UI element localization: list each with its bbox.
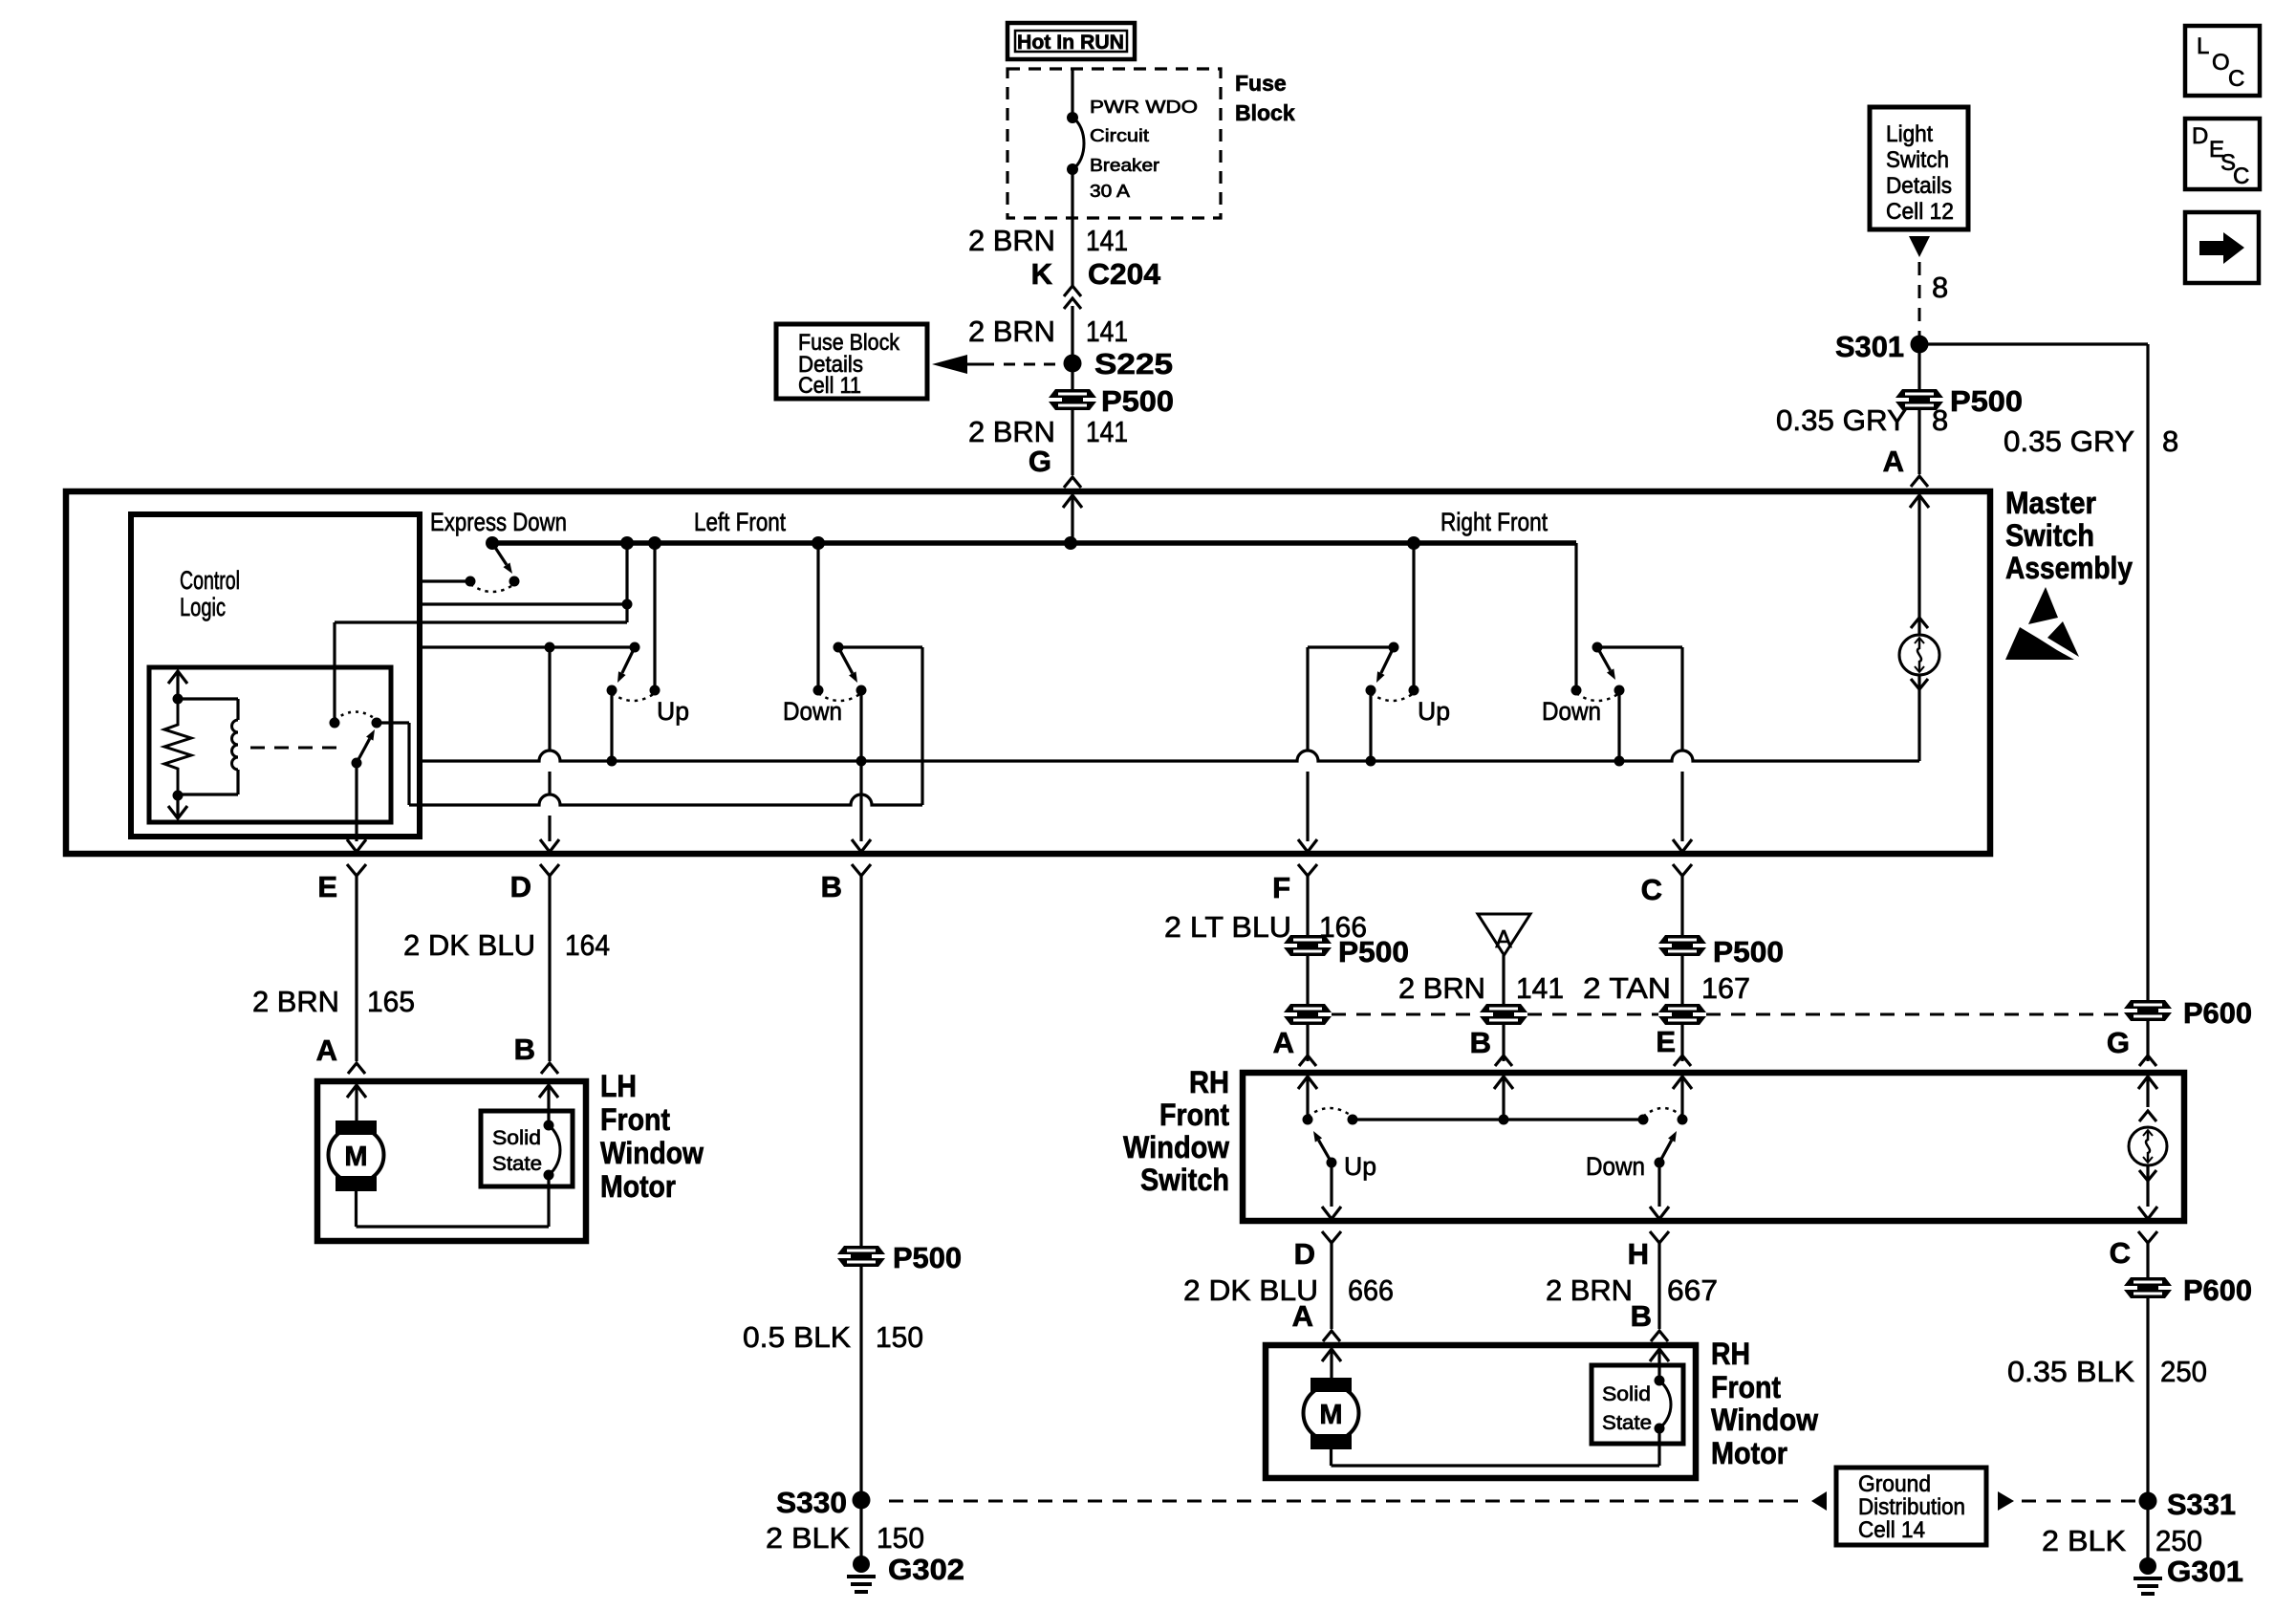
- wire S301 to P500 (column A): [1917, 344, 1920, 389]
- wire C to RH switch pin E: [1680, 876, 1683, 1061]
- RH motor pin A entry arrow: [1330, 1349, 1332, 1378]
- svg-text:Ground: Ground: [1858, 1471, 1931, 1497]
- RH switch common bar: [1353, 1118, 1643, 1120]
- svg-text:Up: Up: [657, 697, 689, 726]
- relay bottom rail wire: [178, 793, 238, 795]
- svg-text:L: L: [2197, 33, 2209, 59]
- RH lamp connector chevron lower: [2139, 1170, 2156, 1181]
- resistor lower node dot: [173, 791, 184, 801]
- svg-text:667: 667: [1667, 1273, 1718, 1307]
- svg-text:0.35 GRY: 0.35 GRY: [2004, 424, 2134, 458]
- svg-text:A: A: [1883, 445, 1904, 478]
- svg-text:Front: Front: [1711, 1370, 1781, 1404]
- RF down switch fixed contact: [1571, 685, 1582, 696]
- wire F drop below line A hop: [1306, 772, 1309, 841]
- ground G301: [2139, 1557, 2156, 1575]
- svg-text:Up: Up: [1418, 697, 1450, 726]
- wire feed into circuit breaker: [1071, 69, 1073, 118]
- svg-text:P500: P500: [1101, 384, 1174, 418]
- connector P500 (column C): [1658, 935, 1706, 944]
- pin D female connector + label: [1322, 1231, 1341, 1243]
- svg-text:Right Front: Right Front: [1440, 508, 1548, 536]
- svg-text:B: B: [514, 1033, 535, 1066]
- bus junction dot (control node): [620, 536, 634, 550]
- svg-text:Window: Window: [1123, 1130, 1229, 1164]
- svg-text:Circuit: Circuit: [1090, 126, 1149, 145]
- node dot D-wire junction on output 4: [545, 642, 555, 653]
- LF up switch fixed contact: [650, 685, 661, 696]
- RH pin B entry arrow: [1502, 1077, 1505, 1120]
- relay switch arm: [357, 739, 370, 763]
- RH lamp connector chevron upper: [2139, 1111, 2156, 1121]
- svg-text:E: E: [317, 870, 337, 903]
- reference triangle A (power feed): [1478, 914, 1530, 955]
- pin B exit arrow (master box bottom): [852, 839, 871, 852]
- bus junction dot at G feed: [1064, 536, 1077, 550]
- wire B to P500: [859, 876, 862, 1345]
- svg-text:Switch: Switch: [2005, 518, 2094, 553]
- wire control output 4 (LF up pivot): [420, 645, 635, 648]
- relay switch fixed contact (left): [330, 718, 340, 729]
- svg-text:A: A: [1495, 925, 1512, 953]
- LF up switch moving contact: [607, 685, 617, 696]
- svg-text:O: O: [2212, 50, 2230, 76]
- dashed reference arrow to Fuse Block Details: [932, 355, 967, 374]
- splice S330: [853, 1491, 871, 1510]
- wire RH up moving contact to pin D: [1330, 1163, 1332, 1207]
- dashed harness line through P600: [1332, 1013, 1480, 1016]
- svg-text:Distribution: Distribution: [1858, 1494, 1965, 1520]
- svg-text:2 BRN: 2 BRN: [1398, 971, 1485, 1005]
- svg-text:8: 8: [1932, 271, 1948, 304]
- switch supply bus (Express Down / window switches): [492, 540, 1576, 546]
- pin D exit arrow (master box bottom): [540, 839, 559, 852]
- svg-text:Solid: Solid: [492, 1127, 541, 1149]
- svg-text:Down: Down: [783, 697, 842, 726]
- pin B female connector + label: [852, 864, 871, 876]
- wire E to LH motor pin A: [355, 876, 357, 1061]
- svg-text:G301: G301: [2167, 1555, 2243, 1588]
- LF down switch pivot dot: [834, 642, 844, 653]
- svg-text:167: 167: [1701, 971, 1750, 1005]
- svg-text:D: D: [510, 870, 531, 903]
- wire F to RH switch pin A: [1306, 876, 1309, 1061]
- wire control output 1 (express down): [420, 579, 470, 582]
- svg-text:250: 250: [2155, 1524, 2202, 1557]
- svg-text:P500: P500: [893, 1241, 962, 1274]
- RF up switch fixed contact: [1409, 685, 1419, 696]
- LH motor pin A entry arrow: [355, 1085, 357, 1120]
- wire P500 to master switch G pin: [1071, 410, 1073, 475]
- svg-text:P500: P500: [1713, 935, 1784, 968]
- circuit breaker PWR WDO 30A: [1067, 112, 1078, 123]
- svg-text:RH: RH: [1189, 1065, 1229, 1099]
- RF up switch moving contact: [1366, 685, 1376, 696]
- icon box LOC: [2185, 26, 2260, 96]
- svg-text:0.5 BLK: 0.5 BLK: [743, 1320, 851, 1354]
- svg-text:A: A: [1273, 1026, 1294, 1059]
- relay switch fixed contact (right): [372, 718, 382, 729]
- svg-text:P500: P500: [1338, 935, 1409, 968]
- svg-text:Control: Control: [180, 566, 240, 595]
- wire P500 to master switch A pin: [1917, 410, 1920, 474]
- svg-text:A: A: [316, 1033, 337, 1067]
- LH solid state box: [481, 1111, 573, 1186]
- wire lamp feed upper: [1917, 535, 1920, 636]
- express down switch left contact: [466, 577, 476, 587]
- illumination lamp (RH switch): [2129, 1127, 2167, 1165]
- ground G302: [853, 1556, 870, 1573]
- svg-text:LH: LH: [600, 1069, 637, 1103]
- RH down switch pin E contact dot: [1678, 1115, 1688, 1125]
- LF down switch contact arc: [818, 693, 861, 701]
- pin G male connector chevron: [1064, 477, 1081, 488]
- svg-text:141: 141: [1086, 415, 1128, 448]
- pin F exit arrow (master box bottom): [1298, 839, 1317, 852]
- RH down switch contact arc: [1643, 1108, 1682, 1117]
- RH front window switch box: [1243, 1073, 2184, 1221]
- splice S331: [2139, 1492, 2157, 1511]
- svg-text:P600: P600: [2183, 996, 2252, 1030]
- RH motor pin B entry arrow: [1657, 1349, 1660, 1381]
- resistor R (relay shunt): [164, 699, 191, 795]
- svg-text:F: F: [1272, 871, 1290, 904]
- svg-text:RH: RH: [1711, 1337, 1750, 1371]
- svg-text:Front: Front: [600, 1102, 670, 1137]
- connector P500 (column B): [837, 1246, 885, 1254]
- connector P500 (column G): [1049, 389, 1096, 398]
- node dot joining outputs 2-3: [622, 599, 633, 610]
- connector P600 (lower): [2124, 1277, 2172, 1286]
- wire RH down moving contact to pin H: [1657, 1163, 1660, 1207]
- svg-text:150: 150: [876, 1320, 923, 1354]
- svg-text:A: A: [1292, 1299, 1313, 1333]
- wire RF down pivot to C terminal drop: [1597, 645, 1682, 648]
- pin C exit arrow (master box bottom): [1673, 839, 1692, 852]
- svg-text:Up: Up: [1344, 1152, 1376, 1181]
- svg-text:164: 164: [565, 928, 610, 962]
- RH solid state box: [1592, 1365, 1683, 1444]
- express down switch pivot dot (bus end): [486, 536, 499, 550]
- resistor upper node dot: [173, 694, 184, 705]
- bus junction dot LF down: [812, 536, 825, 550]
- svg-text:Left Front: Left Front: [694, 508, 786, 536]
- bus junction dot LF up: [648, 536, 661, 550]
- RF up switch contact arc: [1371, 693, 1414, 701]
- connector P600 (upper): [2124, 1000, 2172, 1009]
- detail box Ground Distribution Cell 14: [1836, 1468, 1986, 1545]
- svg-text:Cell 14: Cell 14: [1858, 1517, 1925, 1543]
- svg-text:D: D: [2192, 123, 2208, 149]
- power feed flag box 'Hot In RUN': [1007, 23, 1135, 59]
- svg-text:M: M: [344, 1142, 367, 1172]
- svg-text:D: D: [1294, 1237, 1315, 1271]
- icon box DESC: [2185, 119, 2260, 189]
- dashed link ground distribution to S331: [2022, 1500, 2136, 1503]
- RH up switch pin A contact dot: [1303, 1115, 1313, 1125]
- svg-text:Fuse: Fuse: [1235, 71, 1287, 96]
- RH common bar right dot: [1638, 1115, 1649, 1125]
- svg-text:Logic: Logic: [180, 593, 226, 621]
- wire P600 to S331: [2146, 1298, 2149, 1562]
- svg-text:Cell 11: Cell 11: [798, 373, 861, 399]
- pin C female connector + label: [2138, 1231, 2157, 1243]
- wire S225 to P500: [1071, 363, 1073, 389]
- LF down switch fixed contact: [813, 685, 824, 696]
- svg-text:2 BRN: 2 BRN: [968, 415, 1055, 448]
- connector P500 (light switch column): [1895, 389, 1943, 398]
- resistor top arrow: [176, 671, 179, 699]
- svg-text:G: G: [2107, 1026, 2130, 1059]
- wire LF down contact to bus: [816, 543, 819, 690]
- wire RF down moving contact to line A: [1617, 690, 1620, 761]
- RF up switch pivot dot: [1389, 642, 1399, 653]
- RH motor M2: [1310, 1378, 1352, 1392]
- pin A entry arrow into master box: [1917, 495, 1920, 535]
- node dot B wire on line A: [856, 756, 867, 767]
- detail box Fuse Block Details Cell 11: [776, 324, 927, 399]
- LF up switch contact arc: [612, 693, 655, 701]
- svg-text:B: B: [1470, 1026, 1491, 1059]
- svg-text:Express Down: Express Down: [430, 508, 567, 536]
- pin C female connector + label: [1673, 864, 1692, 876]
- svg-text:2 BRN: 2 BRN: [968, 224, 1055, 257]
- harness connector on dashed line (B): [1480, 1004, 1527, 1012]
- RH pin H exit arrow: [1650, 1207, 1669, 1219]
- svg-text:S331: S331: [2167, 1488, 2236, 1521]
- reference arrow (right) ground distribution: [1998, 1491, 2014, 1511]
- LH front window motor box: [317, 1081, 586, 1241]
- icon box with right arrow: [2185, 212, 2259, 283]
- svg-text:B: B: [821, 870, 842, 903]
- svg-text:141: 141: [1516, 971, 1564, 1005]
- svg-text:Window: Window: [1711, 1403, 1818, 1437]
- pin A male connector chevron: [1911, 476, 1928, 487]
- wire RF down contact to bus (corner): [1574, 543, 1577, 690]
- connector C204 chevrons: [1064, 286, 1081, 296]
- svg-text:P500: P500: [1950, 384, 2023, 418]
- svg-text:Switch: Switch: [1140, 1163, 1229, 1197]
- wire LF up moving contact to line A: [610, 690, 613, 761]
- svg-text:Down: Down: [1586, 1152, 1645, 1181]
- svg-text:Details: Details: [1886, 173, 1952, 199]
- RF up switch arm: [1381, 647, 1394, 673]
- RH solid state breaker: [1655, 1376, 1665, 1386]
- wire relay feed (control to left contact): [333, 622, 336, 723]
- master switch assembly box: [66, 491, 1990, 854]
- wire P500 to S330: [859, 1345, 862, 1560]
- svg-text:Light: Light: [1886, 121, 1933, 147]
- RH up switch contact arc: [1308, 1108, 1353, 1117]
- svg-text:2 LT BLU: 2 LT BLU: [1164, 910, 1291, 944]
- pin D female connector + label: [540, 864, 559, 876]
- svg-text:Solid: Solid: [1602, 1383, 1651, 1405]
- LH motor return wire: [355, 1191, 357, 1227]
- wire S301 to right bus: [1919, 342, 2148, 345]
- wire relay right contact to line B drop: [377, 721, 409, 724]
- wire control output 2: [420, 602, 627, 605]
- svg-text:2 BRN: 2 BRN: [968, 315, 1055, 348]
- pin E exit arrow (master box bottom): [347, 839, 366, 852]
- node dot RF up stem on line A: [1366, 756, 1376, 767]
- LF down switch arm: [838, 647, 853, 673]
- RH up switch moving contact: [1327, 1158, 1337, 1168]
- wire LF down pivot to line B riser: [838, 645, 922, 648]
- detail box Light Switch Details Cell 12: [1870, 107, 1968, 229]
- svg-text:2 BLK: 2 BLK: [2042, 1524, 2126, 1557]
- svg-text:0.35 GRY: 0.35 GRY: [1776, 403, 1907, 437]
- RF down switch contact arc: [1576, 693, 1619, 701]
- wire C to P600 lower: [2146, 1243, 2149, 1277]
- wire C204 to S225: [1071, 306, 1073, 363]
- express down switch right contact: [509, 577, 520, 587]
- LH solid state breaker: [544, 1120, 554, 1131]
- LF up switch arm: [622, 647, 635, 673]
- RH down switch moving contact: [1655, 1158, 1665, 1168]
- svg-text:8: 8: [1932, 403, 1948, 437]
- wire breaker to C204: [1071, 169, 1073, 286]
- RH common bar left dot: [1348, 1115, 1358, 1125]
- dashed link S330 to ground distribution: [889, 1500, 1799, 1503]
- svg-text:Switch: Switch: [1886, 147, 1949, 173]
- reference arrow (left) ground distribution: [1811, 1491, 1827, 1511]
- illumination lamp (master switch): [1899, 635, 1939, 675]
- wire B terminal drop (moving contact to bottom): [859, 690, 862, 841]
- wire E terminal drop (relay output): [355, 763, 357, 841]
- svg-text:K: K: [1031, 257, 1053, 291]
- svg-text:Assembly: Assembly: [2005, 551, 2133, 585]
- wire D to LH motor pin B: [548, 876, 551, 1061]
- ESD sensitive device symbol: [2028, 587, 2058, 624]
- node dot LF up stem on line A: [607, 756, 617, 767]
- RH pin A entry arrow: [1306, 1077, 1309, 1120]
- relay switch contact arc: [335, 712, 377, 721]
- svg-text:G: G: [1029, 445, 1051, 478]
- svg-text:2 BLK: 2 BLK: [766, 1521, 850, 1555]
- node dot RF down on line A: [1614, 756, 1625, 767]
- pin F female connector + label: [1298, 864, 1317, 876]
- relay inner box: [149, 667, 391, 822]
- line A (lamp return) with hops over D, F, C wires: [420, 751, 1919, 761]
- splice S301: [1911, 336, 1929, 354]
- svg-text:S225: S225: [1094, 347, 1173, 381]
- svg-text:G302: G302: [888, 1553, 964, 1586]
- RH lamp pin G entry arrow: [2146, 1077, 2149, 1107]
- svg-text:141: 141: [1086, 224, 1128, 257]
- svg-text:2 BRN: 2 BRN: [252, 985, 339, 1018]
- svg-text:0.35 BLK: 0.35 BLK: [2007, 1355, 2134, 1388]
- svg-text:State: State: [1602, 1412, 1652, 1434]
- RH common bar center dot (pin B): [1499, 1115, 1509, 1125]
- connector P500 (column F): [1284, 935, 1332, 944]
- svg-text:2 BRN: 2 BRN: [1546, 1273, 1633, 1307]
- wire bus drop to control node: [625, 543, 628, 604]
- RH up switch arm: [1318, 1141, 1332, 1163]
- RH pin E entry arrow: [1680, 1077, 1683, 1120]
- wire lamp to line A: [1917, 675, 1920, 761]
- wire joining output 2 to 3: [625, 604, 628, 622]
- express down switch arm: [492, 543, 507, 565]
- dashed wire circuit 8 from light switch: [1918, 262, 1921, 337]
- svg-text:C: C: [2110, 1236, 2131, 1270]
- LF down switch moving contact: [856, 685, 867, 696]
- svg-text:Motor: Motor: [1711, 1436, 1787, 1470]
- svg-text:Hot In RUN: Hot In RUN: [1017, 32, 1124, 54]
- RF down switch moving contact: [1614, 685, 1625, 696]
- svg-text:B: B: [1631, 1299, 1652, 1333]
- bus junction dot RF up: [1407, 536, 1420, 550]
- svg-text:2 TAN: 2 TAN: [1583, 971, 1671, 1005]
- pin E female connector + label: [347, 864, 366, 876]
- svg-text:250: 250: [2160, 1355, 2207, 1388]
- wire triangle A to RH switch pin B: [1502, 955, 1505, 1061]
- RH down switch arm: [1659, 1141, 1672, 1163]
- wire RF up contact to bus: [1412, 543, 1415, 690]
- fuse block dashed outline: [1007, 69, 1221, 218]
- svg-text:2 DK BLU: 2 DK BLU: [403, 928, 535, 962]
- svg-text:150: 150: [877, 1521, 924, 1555]
- wire LF up contact to bus: [653, 543, 656, 690]
- LH motor pin B entry arrow: [547, 1085, 550, 1125]
- resistor bottom arrow: [176, 795, 179, 818]
- relay switch moving contact dot: [352, 758, 362, 769]
- express down switch contact arc: [470, 584, 514, 592]
- control logic box: [131, 514, 420, 837]
- svg-text:C: C: [2228, 66, 2244, 92]
- wire RH lamp to pin C: [2146, 1165, 2149, 1207]
- harness connector on dashed line (F): [1284, 1004, 1332, 1012]
- svg-text:C204: C204: [1088, 257, 1161, 291]
- relay top rail wire: [178, 697, 238, 700]
- svg-text:Block: Block: [1235, 100, 1295, 125]
- wire D to RH motor pin A: [1330, 1243, 1332, 1329]
- relay actuation dashed link: [250, 747, 340, 750]
- pin G entry arrow into master box: [1071, 495, 1073, 543]
- wire RF up pivot to F terminal drop: [1308, 645, 1394, 648]
- harness connector on dashed line (C): [1658, 1004, 1706, 1012]
- svg-text:C: C: [2233, 163, 2249, 189]
- RH motor return wire: [1330, 1449, 1332, 1466]
- lamp connector chevron lower: [1911, 679, 1928, 689]
- lamp connector chevron upper: [1911, 618, 1928, 628]
- pin H female connector + label: [1650, 1231, 1669, 1243]
- right bus wire down to P600: [2146, 344, 2149, 1000]
- svg-text:PWR WDO: PWR WDO: [1090, 98, 1198, 117]
- svg-text:Cell 12: Cell 12: [1886, 199, 1954, 225]
- svg-text:Master: Master: [2005, 486, 2096, 520]
- svg-text:P600: P600: [2183, 1273, 2252, 1307]
- LF up switch pivot dot: [630, 642, 640, 653]
- svg-text:State: State: [492, 1153, 542, 1175]
- svg-text:165: 165: [367, 985, 415, 1018]
- svg-text:141: 141: [1086, 315, 1128, 348]
- RF down switch arm: [1597, 647, 1611, 670]
- RH pin C exit arrow: [2138, 1207, 2157, 1219]
- wire C drop below line A hop: [1680, 772, 1683, 841]
- svg-text:Motor: Motor: [600, 1169, 676, 1204]
- line B (control to LF down pivot) with hops over D, B wires: [409, 794, 922, 805]
- svg-text:C: C: [1641, 873, 1662, 906]
- svg-text:30 A: 30 A: [1090, 182, 1130, 201]
- svg-text:E: E: [1656, 1025, 1676, 1058]
- wire control output to relay contact line: [335, 620, 627, 623]
- svg-text:Down: Down: [1542, 697, 1601, 726]
- svg-text:8: 8: [2162, 424, 2178, 458]
- relay coil: [236, 699, 239, 720]
- reference arrow from Light Switch Details (solid triangle): [1909, 236, 1930, 257]
- svg-text:S330: S330: [776, 1486, 847, 1519]
- LH motor M1: [336, 1120, 377, 1135]
